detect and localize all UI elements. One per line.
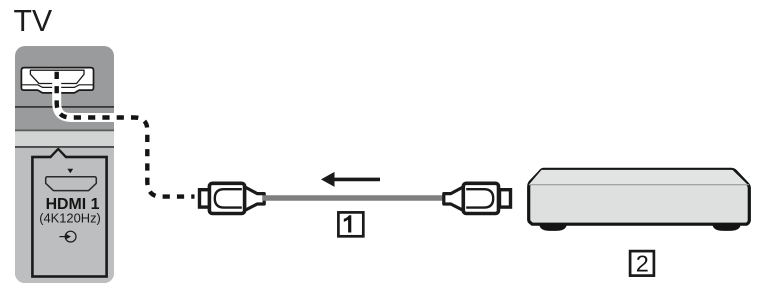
panel seam line middle: [15, 130, 114, 132]
right plug inner detail: [466, 189, 493, 207]
left plug tip: [200, 190, 211, 207]
device top edge line: [529, 184, 749, 186]
input icon line: [59, 236, 66, 238]
callout box 1: [338, 212, 363, 236]
frame rectangle: [32, 157, 106, 277]
callout box 2: [630, 251, 654, 277]
right plug body: [463, 183, 498, 213]
HDMI plug left (cable end, TV side): [200, 183, 265, 213]
device right foot: [713, 225, 741, 231]
left plug inner detail: [215, 189, 242, 207]
frame notch fill: [51, 150, 66, 159]
device chassis: [529, 169, 750, 224]
svg-text:TV: TV: [14, 5, 53, 38]
port bezel step line: [21, 85, 93, 88]
right plug tip: [500, 190, 511, 207]
panel seam line upper: [15, 106, 114, 108]
callout 2 box: [630, 251, 654, 276]
frame notch outline: [50, 149, 66, 157]
callout 1 digit: [344, 215, 352, 232]
AV input icon (arrow into circle): [59, 231, 76, 242]
HDMI connector icon: [46, 177, 97, 191]
left plug neck: [244, 187, 264, 211]
HDMI plug right (cable end, device side): [444, 183, 511, 213]
device left foot: [539, 225, 566, 231]
input icon arrowhead: [66, 234, 71, 239]
callout 1 box: [338, 212, 363, 236]
small down arrow above HDMI icon: [67, 169, 73, 174]
panel lower section: [15, 147, 114, 283]
dashed cable from TV port to plug (black dashes): [57, 72, 195, 197]
direction arrow: [321, 172, 380, 187]
HDMI 1 input frame on panel: [32, 149, 106, 277]
svg-text:(4K120Hz): (4K120Hz): [39, 210, 101, 225]
port socket opening: [30, 70, 84, 83]
HDMI cable: [263, 195, 445, 201]
dashed cable from TV port to plug (white halo): [57, 72, 195, 197]
panel seam line lower: [15, 146, 114, 148]
right plug neck: [444, 187, 464, 211]
device top face: [529, 170, 748, 185]
panel light band: [15, 131, 114, 146]
device (recorder/set-top box): [529, 169, 750, 231]
input icon circle: [65, 231, 76, 242]
panel upper section: [15, 46, 114, 283]
left plug body: [209, 183, 244, 213]
HDMI port (top, bezel with plug profile): [21, 68, 93, 93]
port bezel outline: [21, 68, 93, 93]
svg-text:2: 2: [636, 251, 649, 277]
TV side panel: [15, 46, 114, 283]
